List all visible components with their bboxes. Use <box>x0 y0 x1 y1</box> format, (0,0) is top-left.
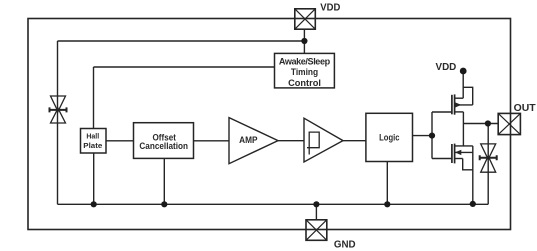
transistor Q2 NMOS drain stub <box>455 145 473 147</box>
wire NMOS drain up to output <box>462 124 464 146</box>
wire gate vertical <box>431 112 433 159</box>
transistor Q1 PMOS body arrow <box>455 102 461 107</box>
wire right zener top stub <box>487 124 489 144</box>
svg-text:Cancellation: Cancellation <box>139 140 188 151</box>
junction dot Hall Plate ground <box>91 201 97 207</box>
wire VDD terminal vertical <box>462 71 464 98</box>
svg-text:VDD: VDD <box>320 3 340 14</box>
wire PMOS gate lead <box>432 111 452 113</box>
zener D2 through wire <box>487 144 489 172</box>
zener D1 lower triangle <box>51 108 66 123</box>
svg-text:OUT: OUT <box>514 103 537 114</box>
svg-text:Logic: Logic <box>379 132 399 143</box>
zener D2 lower triangle <box>481 156 496 172</box>
wire Schmitt trigger to Logic <box>343 140 366 142</box>
svg-text:AMP: AMP <box>239 134 257 145</box>
hysteresis symbol <box>307 132 319 154</box>
svg-text:GND: GND <box>334 240 356 251</box>
wire down to Hall Plate top <box>93 67 95 129</box>
wire Hall Plate bottom to ground rail <box>93 153 95 204</box>
transistor Q1 PMOS gate bar <box>451 95 453 115</box>
wire PMOS drain down to output <box>462 112 464 124</box>
wire VDD rail top horizontal <box>58 40 305 42</box>
schmitt trigger <box>304 118 343 162</box>
transistor Q1 PMOS drain stub <box>455 111 464 113</box>
transistor Q2 NMOS gate bar <box>451 144 453 163</box>
wire supply branch horizontal to Awake/Sleep left <box>94 66 275 68</box>
wire GND pad stub <box>315 204 317 220</box>
svg-text:Hall: Hall <box>86 132 99 141</box>
wire Logic bottom to ground rail <box>386 162 388 205</box>
block Awake/Sleep Timing Control <box>275 53 335 88</box>
junction dot gate node <box>429 133 435 139</box>
outer case border <box>28 19 511 230</box>
pad VDD (top) <box>295 9 316 29</box>
transistor Q1 PMOS source stub <box>455 97 464 99</box>
transistor Q2 NMOS channel bar <box>454 144 456 164</box>
svg-text:Timing: Timing <box>291 66 318 77</box>
junction dot under VDD pad <box>301 38 307 44</box>
svg-text:Plate: Plate <box>83 141 102 150</box>
wire NMOS gate lead <box>432 158 452 160</box>
wire left rail upper vertical <box>57 41 59 96</box>
svg-text:VDD: VDD <box>436 62 457 73</box>
wire output node line <box>463 123 498 125</box>
wire Offset Cancellation bottom to ground rail <box>163 158 165 204</box>
transistor Q2 NMOS source stub <box>455 158 463 160</box>
wire AMP to Schmitt trigger <box>278 140 304 142</box>
wire left rail lower vertical <box>57 123 59 204</box>
transistor Q2 NMOS body stub <box>455 151 473 153</box>
wire NMOS source jog <box>463 159 473 170</box>
transistor Q1 PMOS channel bar <box>454 94 456 114</box>
zener D1 upper triangle <box>51 96 66 112</box>
transistor Q1 PMOS body stub <box>455 104 473 106</box>
junction dot GND stub <box>313 201 319 207</box>
svg-text:Awake/Sleep: Awake/Sleep <box>279 56 331 66</box>
junction dot NMOS source ground <box>470 201 476 207</box>
pad GND (bottom) <box>306 220 327 241</box>
wire right zener bottom stub <box>487 172 489 204</box>
junction dot output zener node <box>485 120 491 126</box>
wire NMOS right vertical to ground rail <box>472 146 474 204</box>
block Offset Cancellation <box>134 123 194 159</box>
junction dot Logic ground <box>384 201 390 207</box>
wire Logic output to gate node <box>413 135 433 137</box>
ground rail horizontal <box>58 203 489 205</box>
zener D2 cathode bar <box>480 155 497 160</box>
transistor Q2 NMOS body arrow <box>455 150 461 155</box>
wire VDD pad to Awake/Sleep top <box>303 29 305 53</box>
pad OUT (right) <box>498 113 520 134</box>
VDD terminal dot <box>460 68 467 75</box>
zener D2 upper triangle <box>481 144 496 159</box>
wire PMOS body loop <box>463 87 473 105</box>
wire Hall Plate to Offset Cancellation <box>106 140 134 142</box>
zener D1 through wire <box>57 96 59 123</box>
block Logic <box>366 113 413 161</box>
op-amp AMP <box>229 118 278 164</box>
block Hall Plate <box>81 129 107 154</box>
zener D1 cathode bar <box>50 107 67 112</box>
svg-text:Control: Control <box>288 77 321 88</box>
wire Offset Cancellation to AMP <box>194 140 230 142</box>
junction dot Offset ground <box>161 201 167 207</box>
